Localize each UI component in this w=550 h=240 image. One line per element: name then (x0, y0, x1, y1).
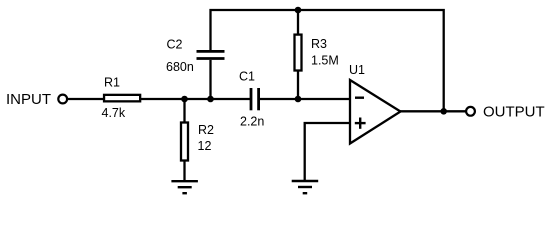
input terminal (58, 95, 67, 104)
svg-text:C2: C2 (167, 37, 183, 51)
op-amp minus symbol (355, 96, 364, 98)
output terminal (466, 107, 475, 116)
node junction C2 on main wire (207, 96, 214, 103)
wire R3 bottom to main wire (297, 71, 299, 99)
capacitor C1 (250, 88, 253, 110)
wire C1 right plate to op-amp minus input (259, 98, 350, 100)
wire C2 bottom plate down to main wire (209, 60, 211, 99)
wire plus input to ground (305, 123, 350, 181)
wire R3 top from top wire (297, 10, 299, 35)
svg-text:1.5M: 1.5M (311, 53, 339, 67)
capacitor C2 (197, 50, 225, 53)
svg-text:R3: R3 (311, 37, 327, 51)
node junction R3 on main wire (295, 96, 302, 103)
wire R1 to C1 left plate (141, 98, 250, 100)
svg-text:R2: R2 (198, 123, 214, 137)
node junction feedback on output wire (440, 108, 447, 115)
wire op-amp output to terminal (399, 110, 466, 112)
wire R2 branch down from main wire (183, 99, 185, 123)
resistor R3 (295, 35, 302, 71)
wire feedback: C2 top up, across top, down to output node (211, 10, 444, 111)
svg-text:4.7k: 4.7k (102, 106, 126, 120)
svg-text:2.2n: 2.2n (240, 114, 264, 128)
ground under R2 (171, 180, 198, 182)
wire R2 bottom to ground (183, 161, 185, 182)
resistor R1 (104, 95, 140, 102)
svg-text:OUTPUT: OUTPUT (483, 104, 545, 121)
svg-text:INPUT: INPUT (6, 91, 51, 108)
node junction R2 on main wire (181, 96, 188, 103)
op-amp U1 (350, 80, 401, 144)
ground under op-amp plus input (292, 180, 319, 182)
op-amp plus symbol (355, 122, 366, 124)
node junction R3 on top wire (295, 7, 302, 14)
svg-text:R1: R1 (104, 76, 120, 90)
resistor R2 (181, 123, 188, 161)
svg-text:C1: C1 (239, 70, 255, 84)
svg-text:U1: U1 (349, 63, 365, 77)
svg-text:680n: 680n (166, 60, 194, 74)
wire main horizontal input to R1 (68, 98, 105, 100)
svg-text:12: 12 (198, 139, 212, 153)
